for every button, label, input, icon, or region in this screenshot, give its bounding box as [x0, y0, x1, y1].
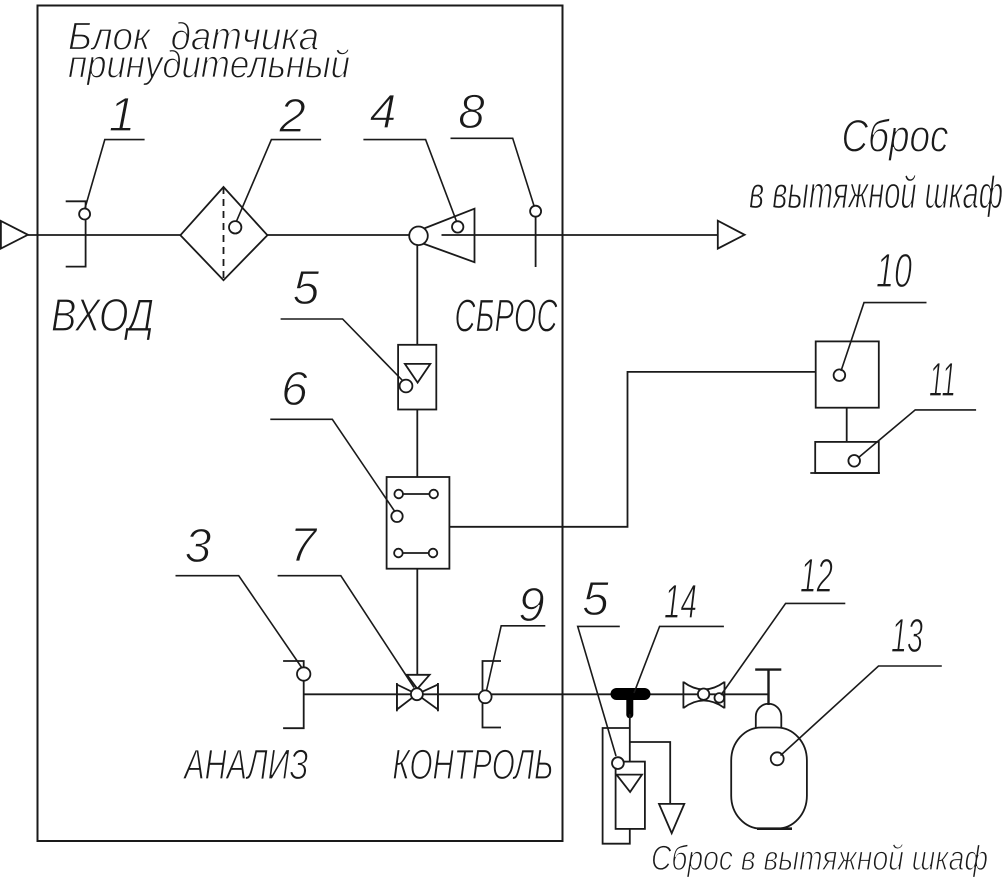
svg-text:8: 8: [458, 86, 485, 139]
label 5b leader: [578, 626, 620, 756]
label 13 leader: [781, 666, 942, 756]
label 11 leader: [858, 410, 976, 458]
solenoid box 6: [387, 477, 450, 569]
wire box6 down to valve 7: [416, 569, 418, 675]
svg-text:11: 11: [929, 354, 956, 407]
ejector 4 (circle + funnel): [409, 209, 474, 263]
rotameter 5 (rect with down triangle): [398, 345, 436, 410]
cylinder 13 valve tee: [755, 670, 781, 705]
svg-text:9: 9: [518, 579, 545, 632]
wire box6 to box10: [449, 372, 815, 527]
rotameter 5b: [612, 757, 645, 829]
svg-text:КОНТРОЛЬ: КОНТРОЛЬ: [392, 741, 553, 789]
label 10 leader: [841, 303, 927, 371]
svg-text:Сброс в вытяжной шкаф: Сброс в вытяжной шкаф: [651, 839, 988, 878]
wire tee14 down to rotameter 5b with bypass loop: [603, 714, 630, 844]
label 6 leader: [270, 419, 395, 511]
tap 8 (circle with stem): [530, 206, 541, 267]
svg-text:АНАЛИЗ: АНАЛИЗ: [182, 741, 308, 789]
svg-text:1: 1: [109, 89, 136, 142]
wire rotameter5b top to vent: [630, 742, 670, 804]
label 5 leader: [281, 319, 403, 381]
port 9 (circle on line with bracket): [479, 661, 501, 728]
svg-text:14: 14: [664, 576, 697, 629]
svg-text:3: 3: [185, 520, 212, 573]
label 4 leader: [363, 140, 456, 222]
label 8 leader: [451, 138, 535, 206]
wire valve4 down to rotameter 5: [416, 245, 418, 345]
inlet arrow: [1, 221, 28, 249]
svg-text:СБРОС: СБРОС: [455, 290, 558, 342]
svg-text:в вытяжной шкаф: в вытяжной шкаф: [749, 167, 1003, 218]
box 11: [810, 442, 880, 473]
svg-text:Сброс: Сброс: [842, 111, 949, 162]
svg-text:принудительный: принудительный: [68, 44, 350, 87]
svg-text:10: 10: [876, 245, 912, 298]
box 10: [816, 341, 879, 407]
wire bottom control line: [304, 693, 769, 695]
svg-text:2: 2: [278, 90, 306, 143]
svg-text:6: 6: [281, 363, 308, 416]
label 14 leader: [634, 626, 724, 693]
svg-text:5: 5: [293, 262, 320, 315]
tee 14 (black): [617, 694, 645, 715]
filter 2 (diamond): [180, 187, 267, 280]
svg-text:7: 7: [290, 519, 319, 572]
wire box10 to box11: [846, 408, 848, 442]
wire main inlet line: [28, 234, 181, 236]
wire rotameter 5 to box 6: [416, 410, 418, 478]
label 2 leader: [237, 140, 322, 222]
bracket 3 (analysis port): [283, 661, 310, 728]
wire line diamond to valve4: [267, 234, 409, 236]
label 1 leader: [85, 140, 145, 209]
svg-text:12: 12: [800, 550, 833, 603]
fitting 1 (sampling bracket): [66, 201, 90, 266]
label 9 leader: [487, 626, 546, 691]
valve 7 (three-way): [397, 675, 438, 712]
label 12 leader: [721, 603, 845, 695]
svg-text:4: 4: [370, 86, 397, 139]
vent triangle: [659, 804, 684, 833]
label 7 leader: [278, 576, 414, 688]
label 3 leader: [176, 576, 303, 668]
cylinder 13: [731, 704, 807, 829]
outlet arrow: [718, 221, 745, 249]
wire line valve4 to outlet arrow: [442, 234, 718, 236]
block border (sensor unit enclosure): [38, 6, 563, 842]
svg-text:ВХОД: ВХОД: [51, 289, 154, 341]
svg-text:13: 13: [891, 610, 923, 663]
svg-text:5: 5: [582, 573, 609, 626]
valve 12 (hourglass with curved sides): [683, 682, 724, 709]
